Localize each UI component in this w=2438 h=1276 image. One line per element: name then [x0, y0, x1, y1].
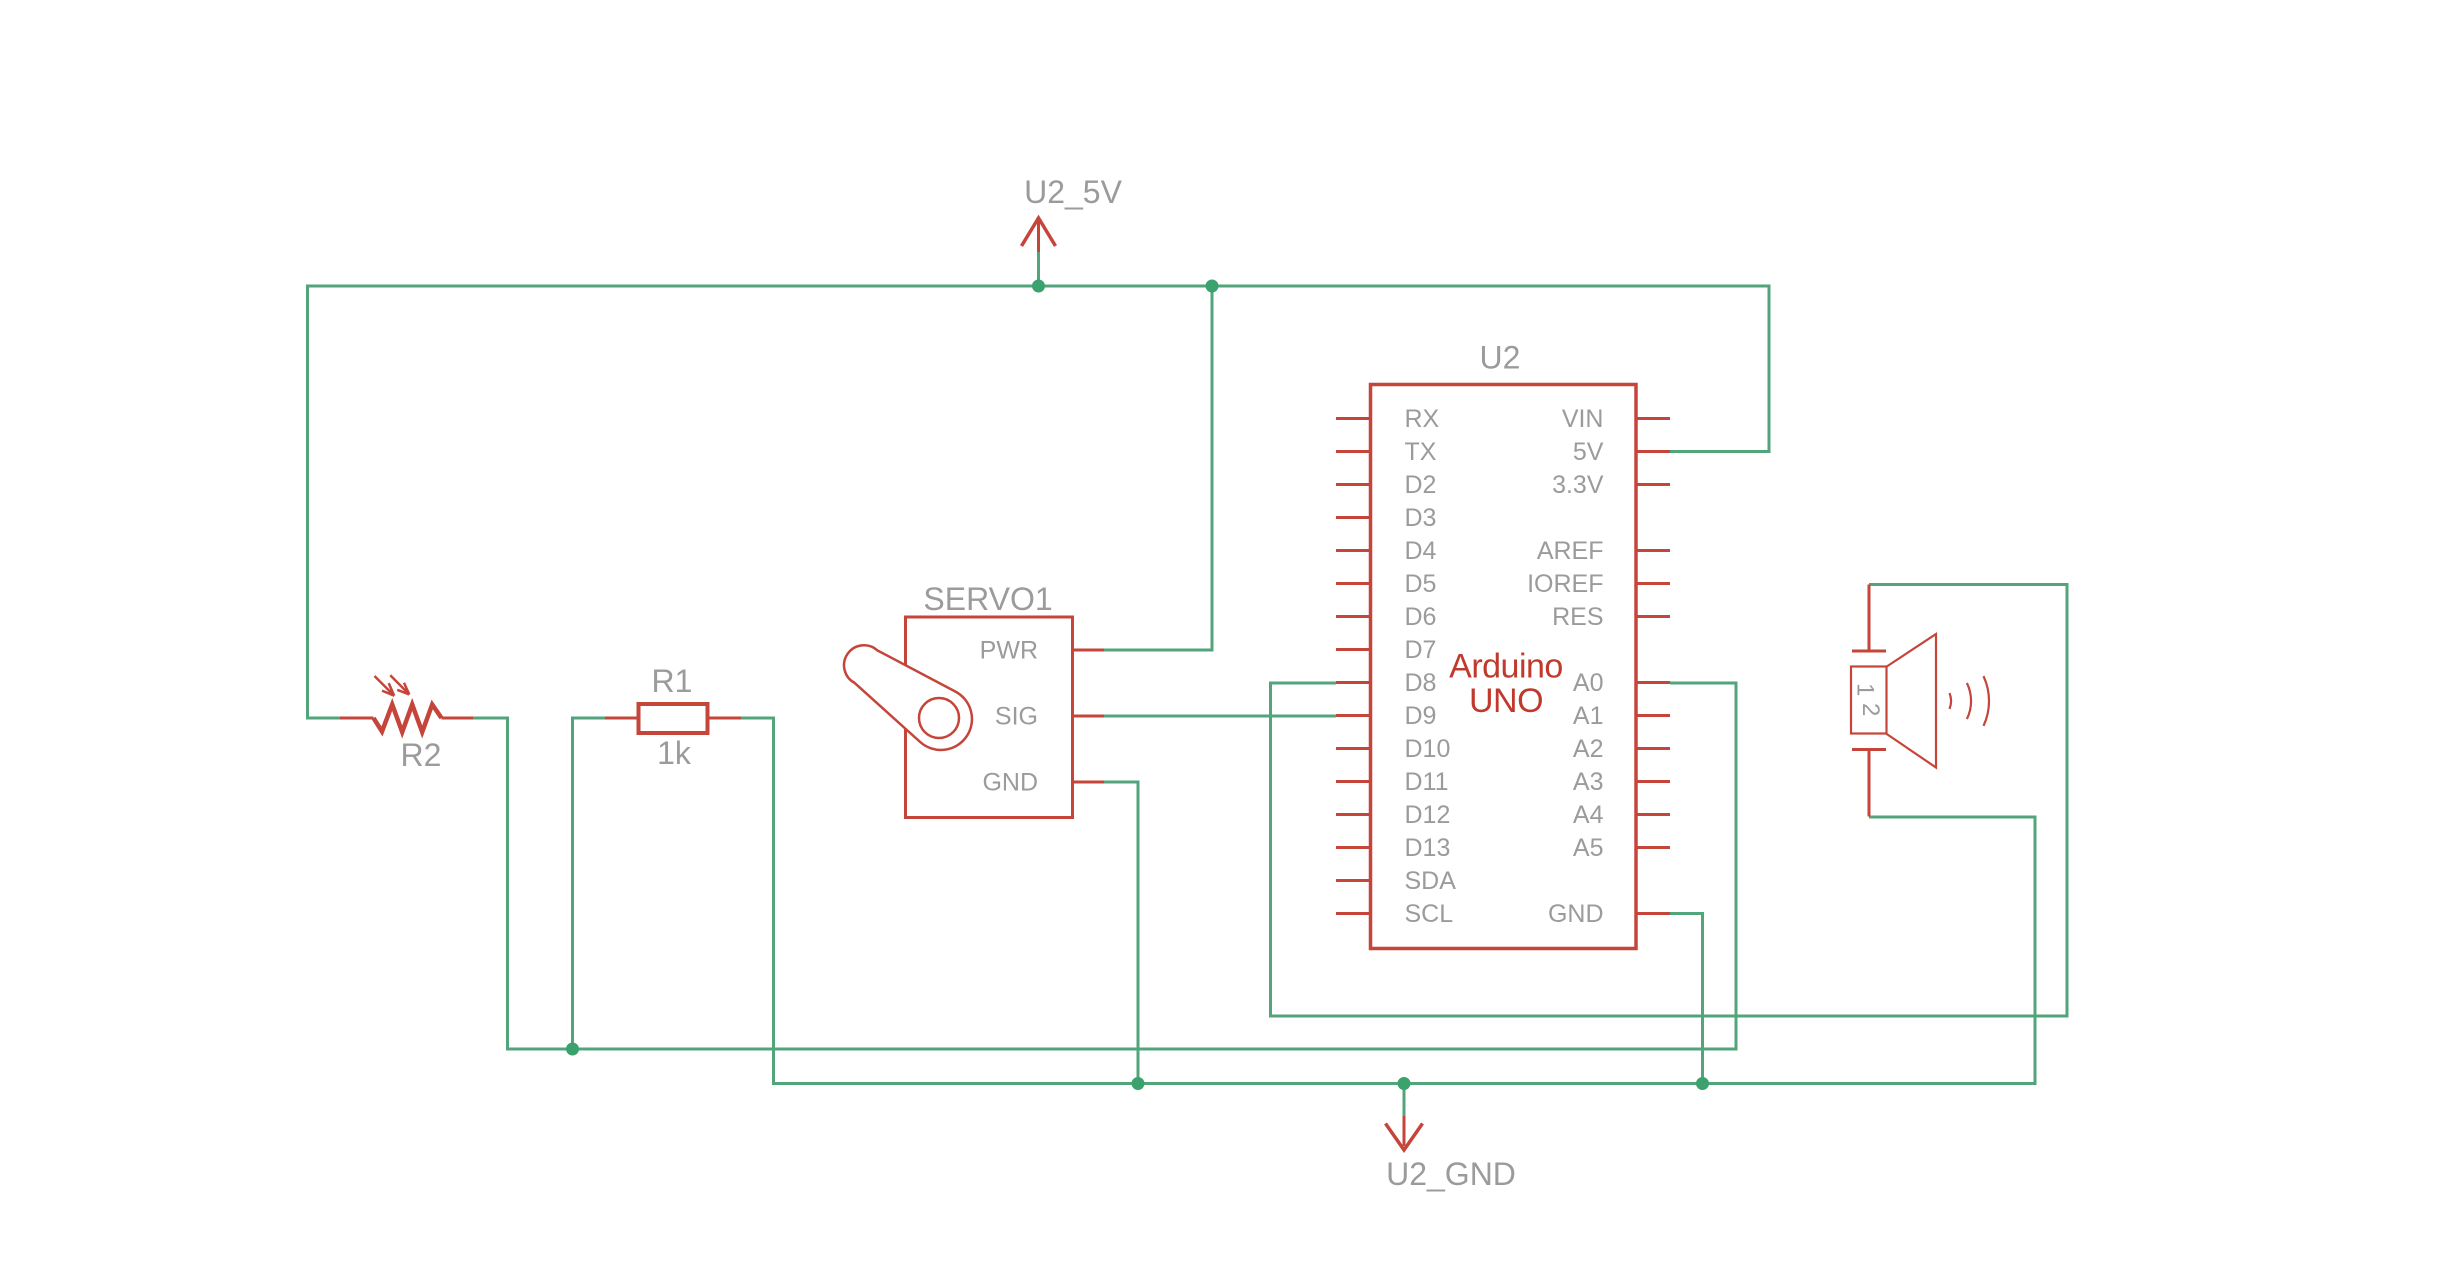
- R1 leads: [605, 717, 741, 720]
- svg-text:R1: R1: [652, 663, 693, 699]
- svg-text:3.3V: 3.3V: [1552, 471, 1604, 499]
- R2 light arrow 1: [375, 676, 395, 696]
- svg-text:UNO: UNO: [1469, 682, 1543, 720]
- R2 zigzag body: [374, 705, 442, 733]
- R1 body: [639, 704, 708, 733]
- wire Arduino GND pin drop to GND rail: [1670, 914, 1703, 1084]
- svg-text:SCL: SCL: [1405, 900, 1454, 928]
- svg-text:GND: GND: [982, 769, 1038, 797]
- svg-text:RES: RES: [1552, 603, 1603, 631]
- svg-text:TX: TX: [1405, 438, 1437, 466]
- svg-text:SERVO1: SERVO1: [923, 581, 1052, 617]
- svg-text:D11: D11: [1405, 768, 1449, 796]
- speaker pin 1 lead: [1868, 585, 1871, 652]
- wire U2_GND arrow stem (green part): [1403, 1084, 1406, 1117]
- ground symbol U2_GND: [1386, 1116, 1423, 1150]
- resistor R1: [605, 704, 741, 733]
- servo pin stubs PWR SIG GND: [1073, 650, 1105, 782]
- R2 light arrow 2: [390, 675, 409, 694]
- svg-text:U2: U2: [1480, 340, 1521, 376]
- svg-text:D4: D4: [1405, 537, 1437, 565]
- U2 right pin stubs VIN 5V 3.3V AREF IOREF RES A0-A5 GND: [1636, 419, 1670, 914]
- wire servo PWR to top rail: [1104, 286, 1212, 650]
- svg-text:IOREF: IOREF: [1527, 570, 1603, 598]
- servo horn hub circle: [919, 698, 959, 738]
- svg-text:SIG: SIG: [995, 703, 1038, 731]
- speaker coil box: [1851, 667, 1887, 734]
- wire U2_5V arrow stem (green part): [1037, 252, 1040, 286]
- wire net SIG: servo SIG to Arduino D9: [1104, 715, 1336, 718]
- svg-text:VIN: VIN: [1562, 405, 1604, 433]
- speaker pin 2 lead: [1868, 750, 1871, 817]
- junction of U2_GND symbol on GND rail: [1398, 1077, 1411, 1090]
- wire net A0: R2 right terminal down to bus y=1049 and up to Arduino A0: [473, 683, 1736, 1049]
- R2 right lead: [442, 717, 474, 720]
- junction on top rail at servo PWR drop: [1206, 280, 1219, 293]
- svg-text:Arduino: Arduino: [1449, 648, 1563, 686]
- svg-text:D13: D13: [1405, 834, 1451, 862]
- svg-text:A2: A2: [1573, 735, 1604, 763]
- speaker sound wave arc small: [1950, 693, 1952, 709]
- svg-text:A4: A4: [1573, 801, 1604, 829]
- junction of R1 left drop on A0 bus: [566, 1043, 579, 1056]
- svg-text:R2: R2: [401, 737, 442, 773]
- power symbol U2_5V: [1022, 218, 1056, 252]
- svg-text:2: 2: [1857, 703, 1884, 716]
- svg-text:D9: D9: [1405, 702, 1437, 730]
- junction of servo GND drop on GND rail: [1132, 1077, 1145, 1090]
- svg-text:SDA: SDA: [1405, 867, 1457, 895]
- svg-text:RX: RX: [1405, 405, 1440, 433]
- photoresistor R2: [340, 675, 473, 732]
- svg-text:PWR: PWR: [980, 637, 1038, 665]
- svg-text:D6: D6: [1405, 603, 1437, 631]
- svg-text:1: 1: [1852, 683, 1879, 696]
- svg-text:AREF: AREF: [1537, 537, 1604, 565]
- svg-text:U2_GND: U2_GND: [1386, 1156, 1516, 1192]
- svg-text:D2: D2: [1405, 471, 1437, 499]
- wire net D8: Arduino D8 down, along y=1016, up right side to speaker pin 1: [1271, 585, 2068, 1017]
- speaker sound wave arc large: [1984, 676, 1990, 726]
- servo body box: [906, 617, 1073, 818]
- IC U2 Arduino UNO: [1336, 385, 1670, 949]
- U2 body box: [1371, 385, 1637, 949]
- wire R1 left terminal drop to A0 bus: [573, 718, 606, 1049]
- svg-text:D12: D12: [1405, 801, 1451, 829]
- servo SERVO1: [844, 617, 1104, 818]
- R2 left lead: [340, 717, 374, 720]
- svg-text:D8: D8: [1405, 669, 1437, 697]
- svg-text:U2_5V: U2_5V: [1024, 174, 1123, 210]
- svg-text:5V: 5V: [1573, 438, 1604, 466]
- junction of Arduino GND drop on GND rail: [1696, 1077, 1709, 1090]
- wire servo GND drop to GND rail: [1104, 782, 1138, 1084]
- U2 left pin stubs RX TX D2-D13 SDA SCL: [1336, 419, 1371, 914]
- servo horn: [844, 645, 972, 750]
- svg-text:D3: D3: [1405, 504, 1437, 532]
- svg-text:D5: D5: [1405, 570, 1437, 598]
- svg-text:A3: A3: [1573, 768, 1604, 796]
- svg-text:A5: A5: [1573, 834, 1604, 862]
- svg-text:GND: GND: [1548, 900, 1604, 928]
- speaker pin 2 terminal bar: [1852, 748, 1886, 751]
- wire net GND: R1 right terminal down, GND rail y=1083.5, up to speaker pin 2: [741, 718, 2035, 1084]
- speaker LS1: [1851, 585, 1989, 817]
- svg-text:A1: A1: [1573, 702, 1604, 730]
- svg-text:D10: D10: [1405, 735, 1451, 763]
- svg-text:1k: 1k: [657, 735, 692, 771]
- speaker cone: [1886, 634, 1936, 768]
- svg-text:A0: A0: [1573, 669, 1604, 697]
- speaker sound wave arc medium: [1967, 683, 1971, 719]
- wire net U2_5V: top rail with left drop to R2 and right drop to 5V pin: [308, 286, 1770, 718]
- svg-text:D7: D7: [1405, 636, 1437, 664]
- junction on top rail at U2_5V symbol: [1032, 280, 1045, 293]
- speaker pin 1 terminal bar: [1852, 650, 1886, 653]
